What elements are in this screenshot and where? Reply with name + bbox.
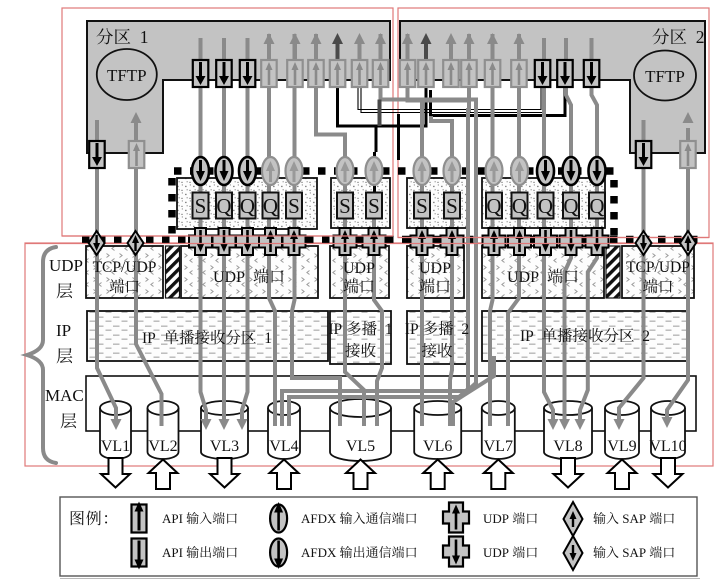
wire VL5 up to G2-S2 lower bbox=[374, 218, 382, 426]
wire VL2 up to TFTP p1 in bbox=[136, 118, 162, 426]
svg-text:VL4: VL4 bbox=[269, 438, 298, 455]
API input port box p1-1 bbox=[261, 60, 277, 87]
svg-text:UDP: UDP bbox=[343, 260, 375, 277]
UDP port box group1 bbox=[181, 246, 318, 298]
svg-text:1: 1 bbox=[377, 321, 393, 338]
UDP port cross G1 x=224 bbox=[213, 228, 236, 255]
port buffer box Q G1 bbox=[216, 193, 232, 219]
svg-text:VL6: VL6 bbox=[423, 438, 452, 455]
up arrow inside partition1 x=269 bbox=[267, 44, 271, 87]
legend SAP text 2 bbox=[593, 546, 605, 558]
API input port box p2-6 bbox=[511, 60, 527, 87]
UDP port cross G1 x=200.5 bbox=[189, 228, 212, 255]
wire API3 down to VL3 bbox=[242, 38, 248, 421]
API input port box p2-1 bbox=[400, 60, 416, 87]
up arrow inside partition2 x=469 bbox=[467, 44, 471, 87]
API output port TFTP p1 bbox=[89, 141, 105, 168]
red boundary line partition2 bottom overlay bbox=[398, 237, 709, 239]
UDP port cross G4 x=571 bbox=[560, 228, 583, 255]
port buffer box S G3 bbox=[444, 193, 460, 219]
svg-text:IP: IP bbox=[328, 321, 345, 338]
input SAP port diamond right-in bbox=[680, 231, 696, 255]
API input port box p1-4 bbox=[330, 60, 346, 87]
arrowhead up into partition1 bbox=[131, 112, 142, 123]
up arrow inside partition2 x=451 bbox=[449, 44, 453, 87]
AFDX port ellipse G1-2 bbox=[216, 157, 233, 185]
arrowhead into VL10 bbox=[662, 417, 673, 428]
legend UDP port up symbol bbox=[443, 503, 469, 533]
dotted boundary top edge bbox=[174, 167, 614, 175]
wire VL7 up through G4-Q2 to partition2 bbox=[508, 34, 519, 426]
legend UDP port down symbol bbox=[443, 537, 469, 567]
AFDX port ellipse G4-5 bbox=[589, 157, 606, 185]
legend API input port symbol bbox=[132, 505, 147, 533]
VL cylinder VL3 bbox=[201, 408, 248, 459]
dark up arrow inside partition1 bbox=[336, 44, 340, 60]
port buffer box Q G4 bbox=[589, 193, 605, 219]
svg-text:S: S bbox=[195, 194, 207, 218]
AFDX port ellipse G3-2 bbox=[444, 157, 461, 185]
API output port box p2-3 bbox=[584, 60, 600, 87]
svg-text:IP: IP bbox=[405, 321, 422, 338]
svg-text:IP: IP bbox=[56, 321, 71, 340]
legend title bbox=[71, 511, 84, 525]
wire dark drop to black junction bbox=[378, 100, 382, 127]
UDP port cross G4 x=597 bbox=[586, 228, 609, 255]
UDP port box group2 bbox=[330, 246, 389, 298]
AFDX port ellipse G1-3 bbox=[239, 157, 256, 185]
wire VL5 up through G2-S1 to partition1 bbox=[316, 34, 364, 426]
wire API p2 down to VL8 b bbox=[565, 38, 572, 421]
VL cylinder VL2 bbox=[148, 408, 179, 459]
API input port box p2-4 bbox=[461, 60, 477, 87]
red boundary partition 2 bbox=[398, 8, 709, 238]
UDP port cross G4 x=545.5 bbox=[534, 228, 557, 255]
VL cylinder VL8 bbox=[544, 408, 592, 459]
hollow down arrow below VL8 bbox=[554, 458, 583, 488]
UDP port cross G3 x=452 bbox=[441, 228, 464, 255]
AFDX port ellipse G1-1 bbox=[192, 157, 209, 185]
svg-text:1: 1 bbox=[257, 330, 273, 347]
wire API p2 down to VL8 c bbox=[580, 38, 597, 421]
IP unicast receive partition2 box bbox=[482, 311, 689, 361]
svg-text:TFTP: TFTP bbox=[107, 66, 147, 85]
svg-text:AFDX: AFDX bbox=[301, 545, 340, 560]
VL cylinder VL10 bbox=[651, 408, 685, 459]
hollow up arrow below VL5 bbox=[346, 460, 375, 490]
TFTP ellipse partition2 bbox=[634, 51, 696, 101]
AFDX port ellipse G1-4 bbox=[262, 157, 279, 185]
svg-text:Q: Q bbox=[216, 194, 231, 218]
wire API1 down to VL3 bbox=[201, 38, 207, 421]
svg-text:Q: Q bbox=[589, 194, 604, 218]
svg-text:UDP: UDP bbox=[213, 269, 252, 286]
port buffer box Q G4 bbox=[563, 193, 579, 219]
port buffer box Q G4 bbox=[486, 193, 502, 219]
svg-text:Q: Q bbox=[486, 194, 501, 218]
svg-text:TCP/UDP: TCP/UDP bbox=[93, 259, 157, 276]
legend AFDX input port symbol bbox=[270, 505, 287, 533]
wire TFTP p1 out to VL1 bbox=[97, 120, 116, 421]
svg-text:2: 2 bbox=[454, 321, 470, 338]
svg-text:Q: Q bbox=[512, 194, 527, 218]
API output port box p2-2 bbox=[557, 60, 573, 87]
arrowhead into VL3 a bbox=[201, 419, 212, 430]
IP multicast2 receive box bbox=[407, 311, 467, 364]
arrowhead into VL3 c bbox=[237, 419, 248, 430]
red boundary line partition1 bottom overlay bbox=[62, 235, 393, 237]
up arrow inside partition2 x=407.5 bbox=[406, 44, 410, 87]
svg-text:Q: Q bbox=[538, 194, 553, 218]
API input port box p1-5 bbox=[352, 60, 368, 87]
svg-text:VL1: VL1 bbox=[101, 438, 130, 455]
port buffer box S G1 bbox=[193, 193, 209, 219]
svg-text:VL3: VL3 bbox=[210, 438, 239, 455]
AFDX port ellipse G4-3 bbox=[537, 157, 554, 185]
svg-text:UDP: UDP bbox=[49, 256, 83, 275]
svg-text:UDP: UDP bbox=[483, 511, 512, 526]
up arrow inside partition1 x=380.5 bbox=[379, 44, 383, 87]
input SAP port diamond left-in bbox=[128, 231, 144, 255]
AFDX port ellipse G4-4 bbox=[563, 157, 580, 185]
wire VL4 up crossing to partition2 bbox=[289, 34, 469, 426]
arrowhead into VL9 bbox=[614, 419, 625, 430]
AFDX ports group4 box bbox=[482, 178, 605, 228]
black TFTP wire partition2 to G2-S2 bbox=[338, 60, 427, 126]
svg-text:2: 2 bbox=[687, 27, 705, 47]
UDP port cross G2 x=374 bbox=[363, 228, 386, 255]
svg-text:TFTP: TFTP bbox=[645, 67, 685, 86]
up arrow inside partition2 x=492.5 bbox=[491, 44, 495, 87]
AFDX port ellipse G1-5 bbox=[286, 157, 303, 185]
legend API output port symbol bbox=[132, 539, 147, 567]
wire diagonal from Q1 lane into VL6 bbox=[453, 356, 494, 426]
API output port box p1-2 bbox=[216, 60, 232, 87]
partition 2 block bbox=[400, 21, 705, 153]
TCP/UDP port box left bbox=[86, 246, 163, 298]
wire VL7 up through G4-Q1 to partition2 bbox=[490, 34, 493, 426]
UDP port cross G1 x=294 bbox=[283, 228, 306, 255]
AFDX ports group1 box bbox=[177, 178, 317, 229]
arrowhead up into partition2 TFTP lane bbox=[683, 112, 694, 123]
svg-text:API: API bbox=[162, 545, 186, 560]
port buffer box Q G1 bbox=[240, 193, 256, 219]
wire VL4 up through Q4 to partition1 bbox=[269, 34, 275, 426]
wire TFTP p2 out to VL9 bbox=[619, 120, 644, 421]
UDP port cross G1 x=247.5 bbox=[236, 228, 259, 255]
arrowhead into VL3 b bbox=[219, 419, 230, 430]
AFDX port ellipse G2-2 bbox=[366, 157, 383, 185]
source wire partition1 x=224 bbox=[222, 38, 226, 60]
wire VL4 up crossing to partition1 bbox=[282, 34, 476, 426]
input SAP port diamond left-out bbox=[89, 231, 105, 255]
legend input SAP port up symbol bbox=[564, 502, 583, 536]
svg-text:Q: Q bbox=[240, 194, 255, 218]
UDP port box group3 bbox=[407, 246, 464, 298]
wire VL6 up through G3-S2 bbox=[431, 116, 452, 426]
up arrow inside partition1 x=316 bbox=[314, 44, 318, 87]
API output port TFTP p2 bbox=[636, 141, 652, 168]
legend input SAP port down symbol bbox=[564, 536, 583, 570]
hollow up arrow below VL7 bbox=[484, 460, 513, 490]
arrowhead into VL8 a bbox=[548, 419, 559, 430]
VL cylinder VL9 bbox=[605, 408, 639, 459]
port buffer box Q G4 bbox=[538, 193, 554, 219]
svg-text:UDP: UDP bbox=[483, 545, 512, 560]
API output port box p1-3 bbox=[240, 60, 256, 87]
label partition 2 bbox=[653, 28, 670, 44]
VL cylinder VL1 bbox=[100, 408, 131, 459]
API input port box p1-6 bbox=[373, 60, 389, 87]
svg-text:IP: IP bbox=[142, 330, 163, 347]
dotted boundary bottom edge bbox=[82, 236, 703, 244]
up arrow inside partition2 x=519 bbox=[517, 44, 521, 87]
wire API2 down to VL3 bbox=[222, 38, 226, 421]
VL cylinder VL7 bbox=[482, 408, 515, 459]
TFTP ellipse partition1 bbox=[97, 49, 157, 100]
svg-text:AFDX: AFDX bbox=[301, 511, 340, 526]
up arrow inside partition1 x=359.5 bbox=[358, 44, 362, 87]
svg-text:UDP: UDP bbox=[507, 269, 546, 286]
hollow up arrow below VL2 bbox=[149, 460, 178, 490]
API input port TFTP p1 bbox=[129, 141, 145, 168]
left curly brace bbox=[27, 247, 56, 463]
UDP port cross G4 x=494 bbox=[483, 228, 506, 255]
wire API p2 down to VL8 a bbox=[544, 38, 553, 421]
svg-text:S: S bbox=[339, 194, 351, 218]
partition 1 block bbox=[87, 21, 390, 153]
AFDX ports group3 box bbox=[407, 178, 468, 228]
svg-text:SAP: SAP bbox=[619, 545, 649, 560]
hollow down arrow below VL1 bbox=[101, 458, 130, 488]
svg-text:S: S bbox=[416, 194, 428, 218]
API input port box p2-5 bbox=[485, 60, 501, 87]
legend AFDX output port symbol bbox=[270, 539, 287, 567]
svg-text:1: 1 bbox=[131, 27, 149, 47]
svg-text:Q: Q bbox=[563, 194, 578, 218]
port buffer box Q G4 bbox=[512, 193, 528, 219]
dotted boundary right edge bbox=[610, 180, 618, 236]
red boundary protocol layers bbox=[25, 243, 713, 466]
port buffer box S G3 bbox=[414, 193, 430, 219]
wire crossing from partition2 box1 bbox=[408, 34, 469, 101]
hollow up arrow below VL4 bbox=[270, 460, 299, 490]
svg-text:MAC: MAC bbox=[45, 386, 84, 405]
svg-text:VL9: VL9 bbox=[607, 438, 636, 455]
svg-text:VL7: VL7 bbox=[484, 438, 513, 455]
svg-text:TCP/UDP: TCP/UDP bbox=[626, 259, 690, 276]
svg-text:S: S bbox=[446, 194, 458, 218]
input SAP port diamond right-out bbox=[636, 231, 652, 255]
port buffer box Q G1 bbox=[263, 193, 279, 219]
hollow down arrow below VL3 bbox=[210, 458, 239, 488]
hollow up arrow below VL9 bbox=[608, 460, 637, 490]
IP multicast1 receive box bbox=[330, 311, 391, 364]
API output port box p1-1 bbox=[193, 60, 209, 87]
UDP port box group4 bbox=[482, 246, 604, 298]
dotted boundary left edge bbox=[168, 178, 176, 236]
API input port TFTP p2 bbox=[680, 141, 696, 168]
API input port box p1-3 bbox=[308, 60, 324, 87]
svg-text:VL8: VL8 bbox=[553, 438, 582, 455]
svg-text:Q: Q bbox=[263, 194, 278, 218]
API input port box p2-2 bbox=[418, 60, 434, 87]
hatch separator left bbox=[166, 246, 180, 298]
svg-text:API: API bbox=[162, 511, 186, 526]
red boundary line layers top overlay bbox=[25, 243, 713, 245]
hollow down arrow below VL10 bbox=[654, 458, 683, 488]
wire VL6 up through G3-S1 to partition2 bbox=[420, 101, 424, 427]
svg-text:S: S bbox=[368, 194, 380, 218]
hatch separator right bbox=[606, 246, 620, 298]
UDP port cross G4 x=519.5 bbox=[508, 228, 531, 255]
AFDX port ellipse G2-1 bbox=[337, 157, 354, 185]
svg-text:S: S bbox=[288, 194, 300, 218]
wire to VL10 bbox=[667, 128, 688, 419]
source wire partition1 x=200.5 bbox=[199, 38, 203, 60]
svg-text:VL10: VL10 bbox=[649, 438, 686, 455]
port buffer box S G2 bbox=[337, 193, 353, 219]
UDP port cross G2 x=345 bbox=[334, 228, 357, 255]
AFDX port ellipse G4-1 bbox=[486, 157, 503, 185]
port buffer box S G1 bbox=[286, 193, 302, 219]
svg-text:VL2: VL2 bbox=[148, 438, 177, 455]
VL cylinder VL4 bbox=[268, 408, 300, 459]
VL cylinder VL6 bbox=[414, 408, 461, 459]
red boundary partition 1 bbox=[62, 8, 393, 236]
wire VL5 up through S5 to partition1 bbox=[292, 34, 340, 426]
dark up arrow inside partition2 bbox=[424, 44, 428, 60]
AFDX port ellipse G4-2 bbox=[511, 157, 528, 185]
label partition 1 bbox=[97, 28, 114, 44]
API input port box p2-3 bbox=[443, 60, 459, 87]
UDP port cross G1 x=270.5 bbox=[259, 228, 282, 255]
API output port box p2-1 bbox=[535, 60, 551, 87]
arrowhead into VL1 bbox=[111, 419, 122, 430]
legend box bbox=[60, 497, 697, 576]
IP unicast receive partition1 box bbox=[87, 311, 328, 361]
legend SAP text 1 bbox=[593, 512, 605, 524]
faint rule under legend bbox=[60, 578, 700, 580]
VL cylinder VL5 bbox=[330, 408, 391, 461]
hollow up arrow below VL6 bbox=[423, 460, 452, 490]
port buffer box S G2 bbox=[366, 193, 382, 219]
up arrow inside partition1 x=295 bbox=[293, 44, 297, 87]
svg-text:UDP: UDP bbox=[419, 260, 451, 277]
TCP/UDP port box right bbox=[622, 246, 694, 298]
svg-text:VL5: VL5 bbox=[346, 438, 375, 455]
UDP port cross G3 x=422 bbox=[411, 228, 434, 255]
source wire partition1 x=247.5 bbox=[246, 38, 250, 60]
svg-text:SAP: SAP bbox=[619, 511, 649, 526]
AFDX port ellipse G3-1 bbox=[414, 157, 431, 185]
svg-text:IP: IP bbox=[520, 328, 541, 345]
API input port box p1-2 bbox=[287, 60, 303, 87]
MAC layer box bbox=[86, 376, 696, 431]
AFDX ports group2 box bbox=[331, 178, 390, 228]
black thin double wire partition1 to partition2 bbox=[358, 80, 544, 113]
arrowhead into VL8 c bbox=[575, 419, 586, 430]
arrowhead into VL8 b bbox=[559, 419, 570, 430]
svg-text:2: 2 bbox=[635, 328, 651, 345]
